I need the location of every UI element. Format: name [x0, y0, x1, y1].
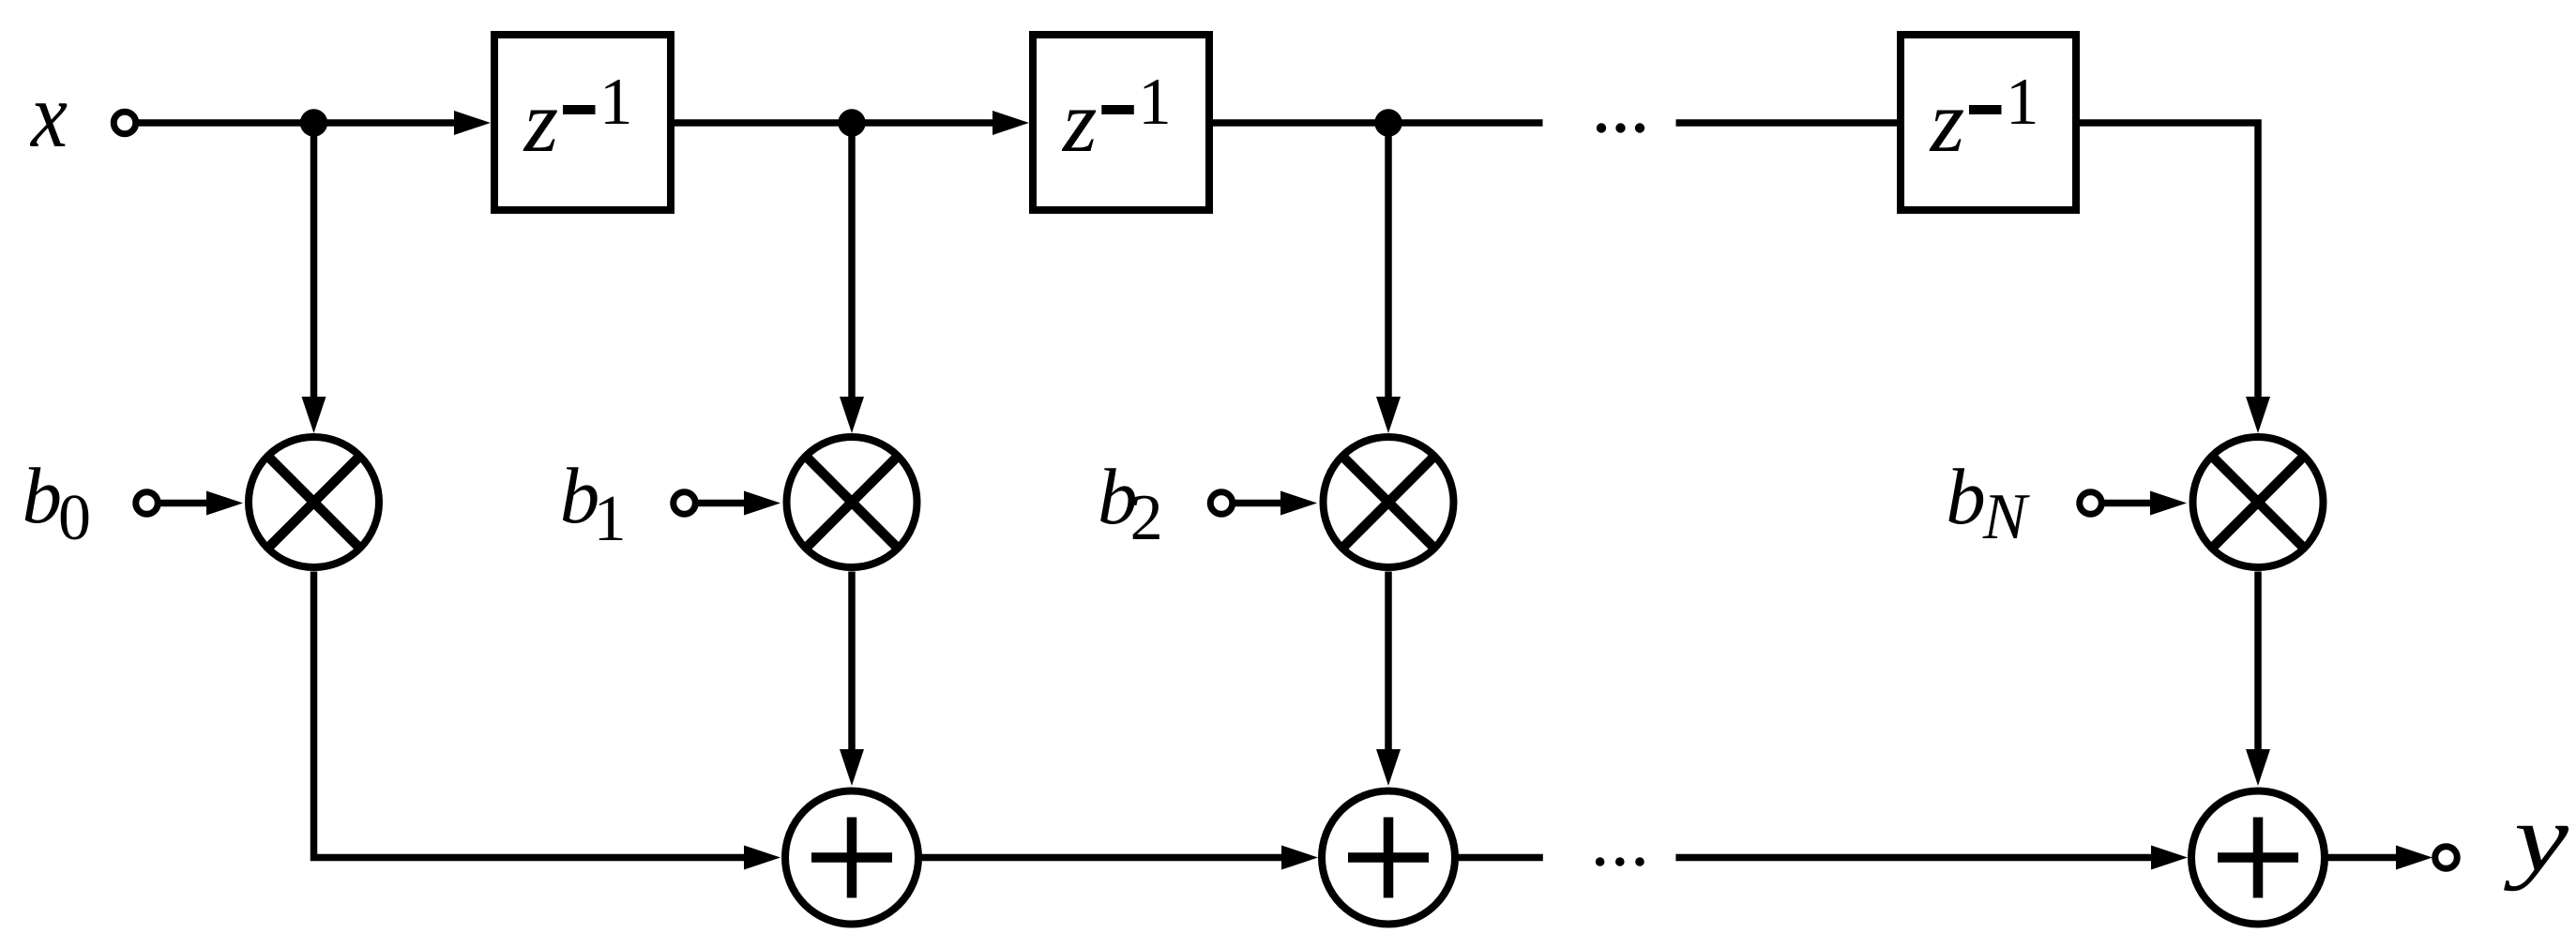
arrow into adder A3 left [2151, 846, 2188, 870]
wire delay N output to column D [2076, 123, 2258, 397]
terminal b0 [136, 492, 159, 515]
label b1 [560, 452, 627, 555]
adder A2 [1322, 791, 1455, 925]
output terminal (open circle) [2435, 847, 2458, 869]
arrow into multiplier M4 [2246, 397, 2270, 433]
svg-text:1: 1 [2006, 66, 2039, 139]
wire delay 2 to ellipsis [1209, 119, 1543, 127]
label z^-1 of Z2 [1061, 66, 1172, 171]
wire J2 down to multiplier M2 [848, 123, 856, 397]
svg-text:2: 2 [1130, 482, 1163, 554]
label z^-1 of Z1 [523, 66, 633, 171]
wire M1 down and right to adder A1 [314, 572, 747, 858]
svg-text:1: 1 [594, 483, 627, 555]
node junction J3 [1374, 109, 1402, 136]
svg-text:z: z [1061, 73, 1098, 171]
terminal b2 [1210, 492, 1233, 515]
wire M3 down to adder A2 [1385, 572, 1392, 752]
arrow into delay 1 [454, 111, 491, 135]
wire b0 to M1 [160, 500, 209, 507]
delay block Z1 [494, 35, 671, 210]
delay block Z2 [1033, 35, 1209, 210]
svg-text:1: 1 [1138, 66, 1172, 139]
arrow b0 into M1 [206, 491, 243, 516]
arrow into adder A1 top [840, 749, 864, 786]
svg-text:b: b [1946, 453, 1986, 541]
svg-text:z: z [523, 73, 559, 171]
arrow bN into M4 [2150, 491, 2187, 516]
wire J3 down to multiplier M3 [1385, 123, 1392, 397]
wire J1 down to multiplier M1 [311, 123, 318, 397]
terminal b1 [674, 492, 696, 515]
wire M4 down to adder A3 [2254, 572, 2262, 752]
arrow into delay 2 [993, 111, 1029, 135]
label bN [1946, 453, 2030, 553]
wire b1 to M2 [698, 500, 747, 507]
wire adder A2 to ellipsis [1458, 854, 1543, 862]
arrow into adder A3 top [2246, 749, 2270, 786]
terminal bN [2080, 492, 2102, 515]
svg-text:N: N [1982, 481, 2030, 553]
wire adder A1 to adder A2 [921, 854, 1284, 862]
node junction J2 [838, 109, 865, 136]
arrow into output terminal [2396, 846, 2432, 870]
wire adder A3 to output [2327, 854, 2399, 862]
wire delay 1 to delay 2 [671, 119, 994, 127]
ellipsis bottom [1596, 857, 1644, 866]
svg-text:0: 0 [58, 482, 91, 554]
multiplier M3 [1324, 437, 1454, 567]
label b2 [1098, 453, 1163, 554]
svg-text:b: b [23, 452, 63, 540]
node junction J1 [300, 109, 327, 136]
wire ellipsis to delay N [1676, 119, 1902, 127]
multiplier M1 [249, 437, 379, 567]
arrow into multiplier M2 [840, 397, 864, 433]
svg-text:x: x [29, 63, 68, 167]
svg-text:1: 1 [599, 66, 633, 139]
label b0 [23, 452, 92, 554]
input terminal (open circle) [114, 112, 136, 134]
svg-text:z: z [1929, 73, 1965, 171]
wire bN to M4 [2104, 500, 2153, 507]
wire b2 to M3 [1235, 500, 1282, 507]
label z^-1 of ZN [1929, 66, 2039, 171]
arrow into multiplier M1 [302, 397, 326, 433]
adder A1 [785, 791, 918, 925]
ellipsis top [1597, 123, 1644, 132]
arrow into adder A1 left [744, 846, 780, 870]
wire input to delay 1 [139, 119, 457, 127]
multiplier M2 [787, 437, 917, 567]
delay block ZN [1901, 35, 2076, 210]
arrow into multiplier M3 [1376, 397, 1401, 433]
svg-text:y: y [2504, 785, 2569, 892]
wire M2 down to adder A1 [848, 572, 856, 752]
arrow b1 into M2 [744, 491, 780, 516]
multiplier M4 [2193, 437, 2324, 567]
adder A3 [2191, 791, 2325, 925]
wire ellipsis to adder A3 [1675, 854, 2153, 862]
arrow into adder A2 left [1281, 846, 1318, 870]
arrow into adder A2 top [1376, 749, 1401, 786]
arrow b2 into M3 [1280, 491, 1317, 516]
